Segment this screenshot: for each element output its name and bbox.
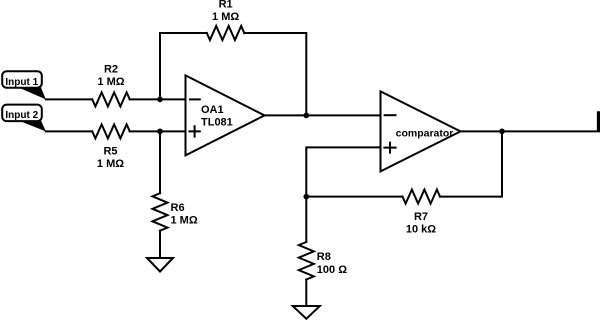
svg-text:R6: R6 — [171, 202, 185, 214]
svg-text:Input 1: Input 1 — [5, 77, 38, 88]
svg-text:R7: R7 — [414, 211, 428, 223]
svg-text:100 Ω: 100 Ω — [317, 264, 347, 276]
svg-text:R5: R5 — [103, 146, 117, 158]
svg-text:1 MΩ: 1 MΩ — [212, 11, 239, 23]
svg-text:OA1: OA1 — [201, 104, 224, 116]
svg-text:comparator: comparator — [396, 128, 454, 140]
svg-text:R8: R8 — [317, 251, 331, 263]
svg-text:R1: R1 — [219, 0, 233, 11]
svg-text:1 MΩ: 1 MΩ — [171, 215, 198, 227]
svg-text:1 MΩ: 1 MΩ — [97, 76, 124, 88]
svg-text:Input 2: Input 2 — [5, 110, 38, 121]
svg-text:TL081: TL081 — [201, 117, 233, 129]
svg-text:R2: R2 — [104, 64, 118, 76]
svg-text:10 kΩ: 10 kΩ — [406, 223, 436, 235]
svg-text:1 MΩ: 1 MΩ — [97, 158, 124, 170]
